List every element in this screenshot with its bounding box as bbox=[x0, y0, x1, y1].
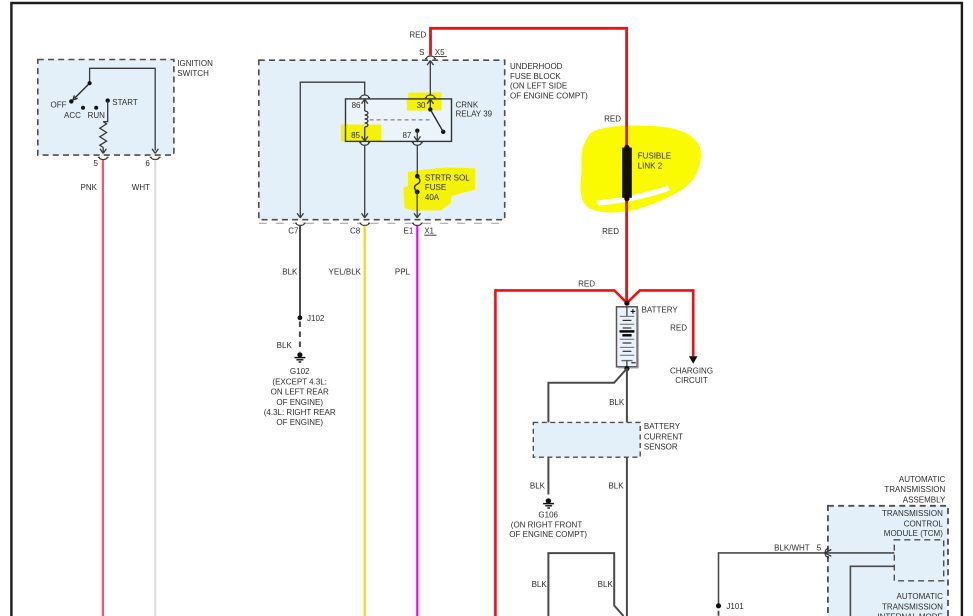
relay switch lever 30-87 bbox=[428, 107, 432, 111]
svg-text:WHT: WHT bbox=[132, 183, 150, 192]
svg-text:CONTROL: CONTROL bbox=[904, 519, 944, 528]
svg-text:OFF: OFF bbox=[51, 100, 67, 109]
fusible link 2 bbox=[622, 148, 632, 198]
BLK wire battery main (down) bbox=[626, 369, 628, 616]
white streak inside highlighter blob bbox=[596, 186, 670, 206]
STRTR SOL FUSE 40A bbox=[415, 174, 420, 179]
wire from relay 85 cup down to C8 bbox=[362, 146, 368, 218]
OFF contact dot bbox=[69, 99, 73, 103]
connector at assembly box edge bbox=[825, 548, 831, 558]
highlighter mark over relay pin 85 bbox=[341, 124, 382, 141]
cup below relay pin 85 bbox=[359, 143, 370, 146]
svg-text:6: 6 bbox=[145, 159, 150, 168]
cup below C8 bbox=[359, 223, 370, 225]
svg-text:RED: RED bbox=[602, 227, 619, 236]
svg-text:START: START bbox=[112, 98, 138, 107]
svg-text:5: 5 bbox=[94, 159, 99, 168]
svg-text:BATTERY: BATTERY bbox=[644, 422, 681, 431]
svg-text:X1: X1 bbox=[424, 226, 434, 235]
charging circuit arrow bbox=[689, 356, 698, 364]
wire YEL/BLK from C8 bbox=[364, 226, 366, 616]
cup above relay pin 86 bbox=[359, 95, 370, 98]
ignition switch internal wiring bbox=[90, 68, 159, 153]
svg-text:CRNK: CRNK bbox=[456, 100, 479, 109]
svg-text:40A: 40A bbox=[425, 193, 440, 202]
svg-text:CIRCUIT: CIRCUIT bbox=[675, 376, 708, 385]
svg-text:IGNITION: IGNITION bbox=[177, 59, 213, 68]
pin 6 connector cup bbox=[150, 157, 161, 159]
svg-text:C8: C8 bbox=[350, 226, 361, 235]
wire from relay 30 cup up to X5 bbox=[427, 61, 433, 95]
battery bbox=[617, 307, 639, 368]
svg-text:87: 87 bbox=[402, 131, 411, 140]
svg-text:OF ENGINE): OF ENGINE) bbox=[276, 398, 323, 407]
red branch to starter (left) bbox=[495, 290, 627, 616]
svg-text:CURRENT: CURRENT bbox=[644, 432, 683, 441]
connector S X5 cup redrawn over red bbox=[425, 56, 436, 59]
svg-text:RED: RED bbox=[409, 30, 426, 39]
svg-text:SWITCH: SWITCH bbox=[177, 69, 209, 78]
TCM inner box bbox=[894, 540, 943, 581]
svg-text:OF ENGINE): OF ENGINE) bbox=[276, 418, 323, 427]
svg-text:(EXCEPT 4.3L:: (EXCEPT 4.3L: bbox=[272, 377, 327, 386]
svg-text:YEL/BLK: YEL/BLK bbox=[329, 268, 362, 277]
BLK ground loop wires (lower) bbox=[548, 553, 623, 616]
svg-text:ASSEMBLY: ASSEMBLY bbox=[903, 495, 946, 504]
relay pin 86 arrow bbox=[362, 99, 368, 111]
wire WHT bbox=[154, 160, 156, 616]
highlighter blob around fusible link bbox=[580, 126, 700, 213]
svg-text:30: 30 bbox=[417, 101, 426, 110]
svg-text:OF ENGINE COMPT): OF ENGINE COMPT) bbox=[509, 530, 587, 539]
svg-text:S: S bbox=[419, 48, 424, 57]
svg-text:RELAY 39: RELAY 39 bbox=[456, 109, 493, 118]
wire PPL from E1 bbox=[416, 226, 418, 616]
svg-text:INTERNAL MODE: INTERNAL MODE bbox=[877, 613, 943, 616]
splice J102 bbox=[298, 315, 303, 320]
cup above relay pin 30 bbox=[425, 95, 436, 98]
svg-text:PPL: PPL bbox=[395, 268, 411, 277]
relay pin 85 arrow bbox=[362, 127, 368, 141]
svg-text:UNDERHOOD: UNDERHOOD bbox=[510, 62, 563, 71]
svg-text:RED: RED bbox=[578, 279, 595, 288]
relay pin 87 bbox=[415, 129, 419, 133]
svg-text:CHARGING: CHARGING bbox=[670, 367, 713, 376]
svg-text:BATTERY: BATTERY bbox=[642, 305, 679, 314]
svg-text:FUSIBLE: FUSIBLE bbox=[638, 152, 671, 161]
ground G106 bbox=[543, 498, 554, 508]
svg-text:ON LEFT REAR: ON LEFT REAR bbox=[271, 388, 329, 397]
highlighter mark over STRTR SOL FUSE bbox=[403, 167, 475, 210]
svg-text:BLK: BLK bbox=[608, 482, 624, 491]
wire from relay 86 cup up/left/down to C7 bbox=[297, 82, 365, 218]
svg-text:PNK: PNK bbox=[81, 183, 98, 192]
svg-text:E1: E1 bbox=[404, 226, 414, 235]
svg-text:(ON LEFT SIDE: (ON LEFT SIDE bbox=[510, 82, 567, 91]
svg-text:MODULE (TCM): MODULE (TCM) bbox=[884, 529, 943, 538]
svg-text:BLK: BLK bbox=[277, 341, 293, 350]
svg-text:BLK: BLK bbox=[530, 482, 546, 491]
BLK wire battery to G106 (left branch) bbox=[548, 369, 627, 495]
svg-text:OF ENGINE COMPT): OF ENGINE COMPT) bbox=[510, 91, 588, 100]
svg-text:STRTR SOL: STRTR SOL bbox=[425, 174, 470, 183]
svg-text:AUTOMATIC: AUTOMATIC bbox=[897, 592, 944, 601]
svg-text:TRANSMISSION: TRANSMISSION bbox=[882, 509, 943, 518]
cup below C7 bbox=[295, 223, 306, 225]
dashed BLK to G102 bbox=[299, 322, 301, 352]
CRNK relay box bbox=[346, 99, 452, 141]
wire PNK bbox=[102, 160, 104, 616]
svg-text:BLK/WHT: BLK/WHT bbox=[774, 544, 810, 553]
thin dashed connector-face line below fuse block bbox=[259, 222, 505, 224]
svg-text:J101: J101 bbox=[726, 602, 744, 611]
wire fuse to E1 bbox=[414, 192, 420, 218]
wire BLK/WHT from TCM to J101 bbox=[719, 553, 895, 606]
automatic transmission assembly box bbox=[828, 506, 948, 616]
svg-text:85: 85 bbox=[351, 131, 360, 140]
ignition switch box bbox=[38, 59, 213, 155]
svg-text:ACC: ACC bbox=[64, 111, 81, 120]
ignition contacts ACC RUN START bbox=[81, 106, 85, 110]
cup below E1 bbox=[412, 223, 423, 225]
svg-text:(4.3L: RIGHT REAR: (4.3L: RIGHT REAR bbox=[264, 408, 336, 417]
battery negative dot bbox=[624, 366, 629, 371]
svg-text:FUSE BLOCK: FUSE BLOCK bbox=[510, 72, 561, 81]
svg-text:RED: RED bbox=[670, 324, 687, 333]
svg-text:SENSOR: SENSOR bbox=[644, 443, 678, 452]
svg-text:LINK 2: LINK 2 bbox=[638, 162, 663, 171]
svg-text:BLK: BLK bbox=[598, 580, 614, 589]
svg-text:BLK: BLK bbox=[282, 268, 298, 277]
svg-text:BLK: BLK bbox=[609, 398, 625, 407]
svg-text:X5: X5 bbox=[435, 48, 445, 57]
svg-text:RUN: RUN bbox=[88, 111, 106, 120]
ignition switch lever (wiper to OFF) bbox=[73, 83, 90, 100]
relay linkage (dashed) bbox=[370, 119, 433, 121]
underhood fuse block box bbox=[259, 60, 588, 220]
resistor (ignition START feed) bbox=[100, 101, 108, 154]
internal TCM wire down bbox=[850, 566, 894, 616]
svg-text:FUSE: FUSE bbox=[425, 183, 446, 192]
cup below relay pin 87 bbox=[412, 143, 423, 146]
svg-text:AUTOMATIC: AUTOMATIC bbox=[899, 475, 946, 484]
wire BLK from C7 bbox=[299, 226, 301, 318]
svg-text:86: 86 bbox=[352, 101, 361, 110]
battery junction dot bbox=[624, 301, 629, 306]
svg-text:TRANSMISSION: TRANSMISSION bbox=[882, 602, 943, 611]
highlighter mark over relay pin 30 bbox=[407, 93, 442, 111]
splice J101 bbox=[716, 603, 721, 608]
wire 87 cup to STRTR SOL fuse bbox=[416, 146, 418, 176]
relay pin 30 arrow bbox=[427, 99, 433, 109]
svg-text:RED: RED bbox=[604, 114, 621, 123]
battery current sensor box bbox=[533, 422, 640, 457]
svg-text:G102: G102 bbox=[290, 367, 310, 376]
svg-text:J102: J102 bbox=[307, 314, 325, 323]
svg-text:BLK: BLK bbox=[532, 580, 548, 589]
pin 5 connector cup bbox=[98, 157, 109, 159]
svg-text:TRANSMISSION: TRANSMISSION bbox=[884, 485, 945, 494]
ground G102 bbox=[294, 352, 305, 362]
svg-text:G106: G106 bbox=[538, 511, 558, 520]
svg-text:C7: C7 bbox=[288, 226, 299, 235]
svg-text:5: 5 bbox=[817, 544, 822, 553]
relay coil bbox=[365, 111, 368, 127]
red branch to charging circuit (right) bbox=[627, 290, 693, 356]
svg-text:(ON RIGHT FRONT: (ON RIGHT FRONT bbox=[511, 520, 583, 529]
